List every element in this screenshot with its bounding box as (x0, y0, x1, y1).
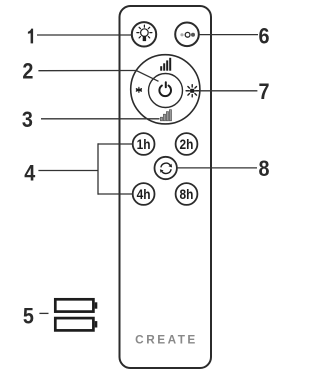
svg-text:5: 5 (23, 304, 34, 328)
svg-text:4h: 4h (137, 186, 151, 202)
svg-text:2: 2 (22, 60, 33, 84)
svg-text:CREATE: CREATE (135, 333, 198, 347)
svg-text:8: 8 (258, 157, 269, 181)
svg-text:7: 7 (258, 80, 269, 104)
svg-text:4: 4 (24, 161, 35, 185)
svg-text:8h: 8h (180, 186, 194, 202)
svg-text:3: 3 (22, 108, 33, 132)
svg-text:1h: 1h (137, 136, 151, 152)
svg-text:6: 6 (258, 24, 269, 48)
svg-text:2h: 2h (180, 136, 194, 152)
